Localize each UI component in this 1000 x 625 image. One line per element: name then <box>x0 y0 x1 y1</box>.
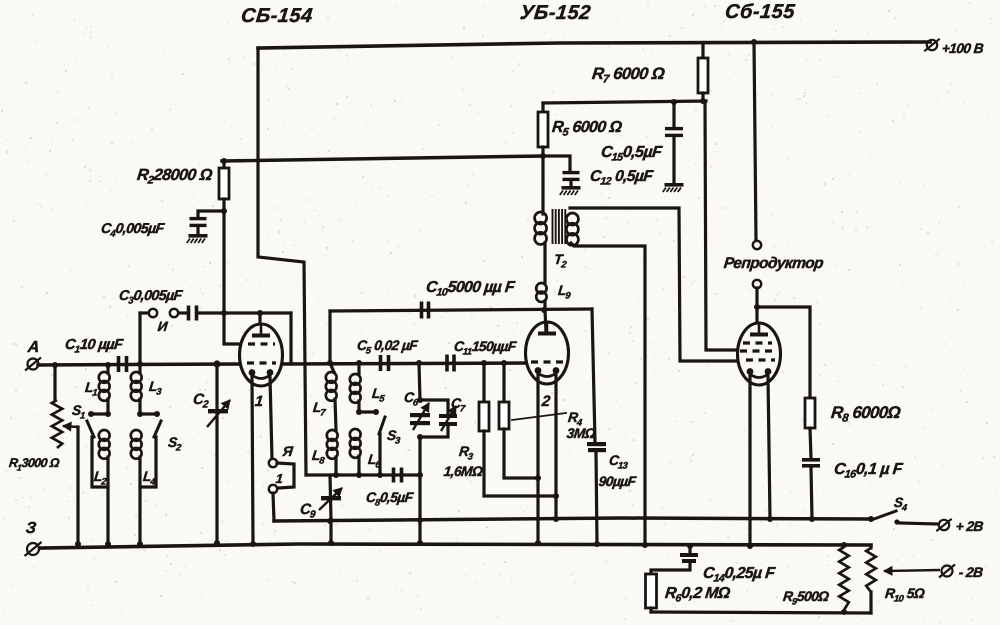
wire tube1 filament left to rail <box>252 377 253 544</box>
node L1 top <box>105 362 111 368</box>
node C6 bottom <box>417 434 423 440</box>
wire +2V filament line <box>274 518 871 521</box>
switch S3 blade <box>379 417 385 434</box>
jack contact bottom <box>269 485 277 493</box>
wire screen supply node <box>543 101 706 103</box>
wire S2 short loop <box>140 437 156 487</box>
wire to C12 <box>543 156 570 170</box>
wire L7-L8 <box>335 399 336 430</box>
node C9 on +2V line <box>327 518 333 524</box>
wire switch I to C3 <box>179 311 187 314</box>
tube3 grid dashes bottom <box>746 358 775 361</box>
wire rail to C14 <box>688 546 691 553</box>
wire L5 top lead <box>357 363 360 374</box>
ground under C12 <box>562 186 581 190</box>
svg-text:СБ-154: СБ-154 <box>240 5 314 27</box>
capacitor C5 series <box>379 355 383 371</box>
svg-text:А: А <box>26 338 40 356</box>
node R3 top <box>481 360 487 366</box>
tube U2 (type 2) <box>526 322 569 384</box>
resistor R6 <box>646 574 657 608</box>
wire C10 feedback line <box>330 309 592 311</box>
svg-text:+100 В: +100 В <box>941 40 985 56</box>
wire +100V to speaker terminal <box>754 42 756 240</box>
wire C14 to R6 <box>651 563 690 574</box>
node L5 top <box>356 360 362 366</box>
wire to S1 <box>91 412 108 415</box>
svg-text:C40,005µF: C40,005µF <box>100 221 165 239</box>
wire rail corner to R10 <box>869 545 872 548</box>
wire R4 bottom <box>504 429 538 478</box>
wire L3 top lead <box>138 364 141 373</box>
svg-text:C110 µµF: C110 µµF <box>64 337 125 355</box>
coil L6 <box>350 429 361 440</box>
svg-text:R228000 Ω: R228000 Ω <box>136 166 214 186</box>
C9 arrow <box>319 488 342 510</box>
coil L5 <box>350 374 361 385</box>
jack bracket <box>277 463 294 488</box>
svg-text:R60,2 МΩ: R60,2 МΩ <box>664 585 732 604</box>
wire R2-to-R5 horizontal <box>222 156 543 161</box>
node R4 top <box>501 360 507 366</box>
wire C3 to tube1 anode node <box>198 311 291 314</box>
ground under C4 <box>189 234 208 238</box>
svg-text:C150,5µF: C150,5µF <box>600 143 664 163</box>
wire R1 wiper to rail <box>76 427 79 544</box>
svg-text:C12 0,5µF: C12 0,5µF <box>589 168 654 187</box>
switch I contact left <box>149 309 157 317</box>
wire L2 bottom to rail <box>106 457 109 544</box>
svg-text:R8 6000Ω: R8 6000Ω <box>830 403 901 424</box>
wire to S3 <box>359 410 376 413</box>
wire R3 top lead <box>482 363 485 402</box>
capacitor C8 series <box>392 468 396 483</box>
svg-text:+ 2В: + 2В <box>955 518 984 534</box>
capacitor C14 <box>680 553 698 557</box>
tube U1 (type 1) <box>240 324 283 386</box>
coil L9 <box>536 283 546 293</box>
resistor R9 zigzag <box>839 547 849 610</box>
capacitor C11 series <box>445 355 449 372</box>
wire T2 primary bottom to L9 <box>543 243 546 283</box>
wire +100V top rail <box>258 42 930 48</box>
capacitor C10 series <box>420 302 424 319</box>
wire L1 top lead <box>106 365 109 373</box>
wire S3 to bus <box>378 434 381 475</box>
wire L4 bottom to rail <box>138 457 141 544</box>
wire CB-154 plate supply (stepped vertical) <box>258 48 306 475</box>
wire into L7 <box>330 363 334 372</box>
wire R5 node to T2 primary <box>541 156 544 214</box>
node L7 top <box>327 360 333 366</box>
node tube3 anode <box>754 304 760 310</box>
switch I contact right <box>170 309 178 317</box>
C7 arrow <box>441 406 456 431</box>
R10 wiper arrow from -2V <box>884 570 940 571</box>
resistor R10 zigzag <box>866 548 876 592</box>
node tube1 anode <box>257 310 263 316</box>
svg-text:3МΩ: 3МΩ <box>566 425 597 441</box>
switch S2 blade <box>154 421 161 437</box>
wire bias network bottom <box>651 612 871 613</box>
capacitor C15 <box>665 127 683 130</box>
wire C7 bottom <box>420 426 448 437</box>
node S3 tap <box>356 409 362 415</box>
wire to C4 <box>198 211 224 217</box>
node S1 tap <box>105 411 111 417</box>
svg-text:R10 5Ω: R10 5Ω <box>884 585 926 603</box>
node C6 branch top <box>416 360 422 366</box>
node tube2 anode <box>541 307 547 313</box>
wire to S2 <box>140 412 157 415</box>
node C13 on rail <box>594 541 600 547</box>
wire tube2 filament left to rail <box>536 375 539 543</box>
svg-text:C5 0,02 µF: C5 0,02 µF <box>356 337 419 355</box>
svg-text:Репродуктор: Репродуктор <box>723 255 824 272</box>
wire R10 to bottom line <box>869 592 872 613</box>
junction C3 wire and R2 branch <box>221 310 227 316</box>
terminal A <box>28 359 39 370</box>
wire S4 to +2V terminal <box>899 523 938 524</box>
wire C9 to rail <box>329 521 332 543</box>
svg-text:R5 6000 Ω: R5 6000 Ω <box>551 118 623 138</box>
svg-text:1,6МΩ: 1,6МΩ <box>443 463 484 479</box>
resistor R5 <box>538 112 548 147</box>
coil L7 <box>326 372 337 383</box>
node R5 bottom <box>540 153 546 159</box>
wire C6 bottom to bus <box>418 437 421 475</box>
svg-text:C11150µµF: C11150µµF <box>453 338 518 356</box>
wire anode node to R8 <box>757 307 810 398</box>
transformer T2 core <box>552 209 554 244</box>
node C14 top <box>687 543 693 549</box>
wire anode node corner down <box>289 313 292 364</box>
terminal +100V <box>927 40 937 50</box>
wire A to R1 <box>53 365 56 400</box>
tube3 screen dashes <box>740 349 776 352</box>
capacitor C1 series <box>117 356 121 372</box>
wire bus corner to rail <box>418 475 421 543</box>
coil L4 <box>131 430 142 441</box>
capacitor C2 variable <box>208 409 228 413</box>
R1 wiper arrow <box>63 426 78 427</box>
wire to tube3 anode <box>755 307 758 332</box>
switch S4 blade <box>874 511 896 519</box>
wire R5 top lead <box>541 103 544 112</box>
wire R7 top lead <box>701 43 704 58</box>
wire L8 to bus <box>334 457 337 475</box>
wire C2 branch to rail <box>215 364 218 543</box>
capacitor C7 trimmer <box>439 414 457 418</box>
svg-text:90µµF: 90µµF <box>598 473 637 489</box>
svg-text:- 2В: - 2В <box>958 564 984 580</box>
coil L1 <box>99 372 110 383</box>
wire C13 branch upper <box>592 309 595 442</box>
wire to tube2 anode <box>545 310 546 332</box>
wire C15 bottom lead <box>672 137 675 182</box>
tube1 grid dashes lower <box>247 361 276 364</box>
wire C13 branch lower <box>596 452 597 544</box>
wire T2 secondary top to tube3 grid <box>570 208 737 361</box>
wire C9 branch <box>330 475 331 520</box>
wire T2 secondary bottom to rail <box>571 243 645 545</box>
wire tank bottom bus <box>306 473 420 476</box>
resistor R3 <box>479 402 489 431</box>
tube1 grid dashes upper <box>248 342 275 345</box>
C2 arrow <box>207 400 230 427</box>
wire C12 to ground <box>569 182 572 186</box>
wire screen supply to tube3 <box>705 101 737 350</box>
wire ground rail from Z <box>40 544 871 548</box>
wire switch I down to grid node <box>138 313 141 364</box>
wire R6 to bottom <box>649 608 652 612</box>
wire down to C6 <box>419 363 420 400</box>
ground under C15 <box>665 183 684 187</box>
terminal +2V <box>939 520 949 530</box>
svg-text:C140,25µ F: C140,25µ F <box>702 565 777 584</box>
tube3 grid dashes top <box>743 341 772 344</box>
speaker terminal upper <box>753 241 761 249</box>
node bus right end <box>417 472 423 478</box>
wire R3 bottom <box>484 431 556 496</box>
wire R2 down to tube1 upper grid stub <box>224 199 246 344</box>
wire tube3 filament left to rail <box>748 376 751 546</box>
svg-text:Сб-155: Сб-155 <box>724 1 796 23</box>
capacitor C6 variable <box>410 413 430 417</box>
wire L3-L4 junction <box>138 399 141 414</box>
svg-text:R7 6000 Ω: R7 6000 Ω <box>591 64 666 85</box>
capacitor C9 variable <box>321 496 341 500</box>
S4 fixed contact <box>894 519 899 524</box>
svg-text:УБ-152: УБ-152 <box>519 2 592 24</box>
capacitor C12 <box>563 171 580 174</box>
wire C4 to ground <box>196 228 199 234</box>
wire tube1 anode lead <box>258 313 261 334</box>
resistor R1 zigzag <box>52 400 62 448</box>
tube2 grid dashes <box>531 360 563 363</box>
node L3 top <box>137 361 143 367</box>
C6 arrow <box>413 403 429 430</box>
wire tube3 filament right to +2V <box>768 376 770 519</box>
node speaker top <box>751 39 757 45</box>
wire R5 bottom lead <box>541 147 544 156</box>
wire input A to tube 1 grid <box>38 364 240 365</box>
node C15 top <box>671 99 677 105</box>
wire R8 to C16 <box>810 428 811 458</box>
svg-text:C30,005µF: C30,005µF <box>118 288 183 306</box>
switch S1 blade <box>87 421 94 437</box>
wire tube2 filament right to +2V <box>554 375 557 519</box>
wire wavemeter switch stub left <box>140 311 148 314</box>
wire speaker to anode node <box>755 288 758 307</box>
node grid junction <box>213 360 220 367</box>
node R7 bottom <box>700 98 706 104</box>
wire C15 top lead <box>672 102 675 127</box>
resistor R4 <box>499 402 509 429</box>
resistor R8 <box>805 398 815 428</box>
wire L9 to anode node <box>543 301 546 310</box>
capacitor C3 series <box>187 306 191 321</box>
terminal Z <box>27 543 39 555</box>
coil L2 <box>99 430 110 441</box>
coil L3 <box>131 372 142 383</box>
capacitor C16 <box>802 458 820 462</box>
wire jack to +2V line <box>273 493 274 521</box>
wire R4 top lead <box>502 363 505 402</box>
transformer T2 secondary winding <box>566 213 578 225</box>
wire C16 to +2V line <box>811 468 812 519</box>
wire tube1 filament right to jack <box>270 377 272 459</box>
node R9 top <box>841 542 847 548</box>
wire C10 corner to grid wire <box>328 311 331 364</box>
svg-text:C80,5µF: C80,5µF <box>365 489 415 507</box>
wire L6 to bus <box>357 456 360 475</box>
node C4 tap <box>221 208 227 214</box>
tube U3 (output) <box>738 323 781 385</box>
svg-text:R9500Ω: R9500Ω <box>782 588 830 606</box>
wire S1 short loop <box>92 437 108 487</box>
node S4 pivot <box>868 516 874 522</box>
jack contact top <box>269 459 277 467</box>
terminal -2V <box>942 566 953 577</box>
wire tube1 to tube2 grid coupling <box>282 363 527 364</box>
wire R2 top lead <box>222 161 225 168</box>
wire to C7 top <box>420 400 448 414</box>
wire L5-L6 junction <box>357 401 360 412</box>
wire R7 bottom lead <box>701 93 704 101</box>
capacitor C13 <box>587 442 606 446</box>
node C6 top <box>417 397 423 403</box>
speaker terminal lower <box>753 280 761 288</box>
wire L1-L2 junction <box>106 399 109 414</box>
R4 label pointer <box>512 413 566 420</box>
node S2 tap <box>137 411 143 417</box>
transformer T2 primary winding <box>535 212 547 224</box>
svg-text:C160,1 µ F: C160,1 µ F <box>833 460 905 480</box>
coil L8 <box>327 430 338 441</box>
node R2 top <box>221 158 227 164</box>
resistor R2 <box>219 168 229 199</box>
resistor R7 <box>698 58 708 93</box>
capacitor C4 <box>190 217 207 220</box>
